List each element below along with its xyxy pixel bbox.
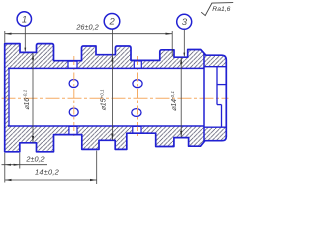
extension line 2 right	[19, 153, 21, 169]
balloon 3	[177, 14, 192, 29]
hatch right end top	[204, 55, 226, 66]
leader balloon 1	[24, 26, 26, 51]
bore top line	[8, 67, 204, 69]
balloon 2	[104, 13, 120, 29]
leader balloon 2 / dim line d15	[111, 29, 113, 141]
small hole top line	[217, 84, 226, 86]
svg-text:Ra1,6: Ra1,6	[212, 6, 230, 13]
arrow 2 left	[5, 164, 11, 166]
hole 1 slot top	[68, 61, 77, 68]
hole 2 upper opening	[133, 80, 142, 88]
centerline main axis	[2, 97, 229, 99]
svg-text:2±0,2: 2±0,2	[25, 154, 44, 163]
arrow 14 left	[5, 179, 12, 181]
hole 1 lower opening	[69, 108, 78, 116]
arrow d14 down	[180, 131, 182, 138]
small hole bottom line	[217, 104, 222, 106]
leader 3 arrow	[183, 53, 185, 57]
hole 2 lower opening	[132, 109, 141, 117]
arrow 26 right	[166, 33, 173, 35]
arrow d16 down	[32, 136, 34, 143]
hatch top band	[8, 44, 204, 69]
outer profile outline	[5, 44, 227, 152]
svg-text:14±0,2: 14±0,2	[35, 168, 59, 177]
dimension line 26	[5, 33, 172, 35]
arrow 26 left	[5, 33, 12, 35]
hole 2 slot top	[134, 61, 141, 68]
hole 2 slot bottom	[133, 126, 141, 133]
centerline hole 1	[73, 56, 75, 138]
extension line 14 right	[96, 151, 98, 184]
counterbore end wall	[216, 67, 218, 105]
arrow d14 up	[180, 58, 182, 65]
extension line 26 left	[4, 31, 6, 43]
bore bottom line	[8, 125, 204, 127]
svg-text:2: 2	[109, 17, 116, 28]
hatch right end bottom	[204, 127, 226, 141]
dim line d16	[32, 53, 34, 143]
leader balloon 3	[183, 29, 185, 56]
arrow d15 up	[111, 55, 113, 62]
dimension line 14	[5, 179, 97, 181]
dim line d14	[180, 58, 182, 138]
arrow 14 right	[90, 179, 97, 181]
arrow d15 down	[111, 134, 113, 141]
balloon 1	[17, 12, 31, 26]
dimension line 2	[2, 164, 48, 166]
extension line 2 left	[4, 153, 6, 183]
bore blind end left	[8, 68, 10, 127]
counterbore top line	[204, 66, 226, 68]
surface roughness symbol	[201, 3, 233, 16]
hatch left wall	[5, 44, 9, 152]
leader 1 arrow	[24, 48, 26, 52]
section step face right	[203, 53, 205, 142]
arrow d16 up	[32, 53, 34, 60]
hatch bottom band	[8, 126, 204, 152]
arrow 2 right	[14, 164, 20, 166]
svg-text:26±0,2: 26±0,2	[75, 23, 98, 32]
svg-text:1: 1	[22, 14, 27, 25]
small hole step vertical	[221, 105, 223, 128]
hole 1 slot bottom	[69, 126, 77, 134]
centerline hole 2	[137, 56, 139, 137]
counterbore bottom line	[204, 126, 226, 128]
svg-text:3: 3	[182, 17, 188, 28]
hole 1 upper opening	[69, 80, 78, 88]
extension line 26 right	[171, 31, 173, 57]
